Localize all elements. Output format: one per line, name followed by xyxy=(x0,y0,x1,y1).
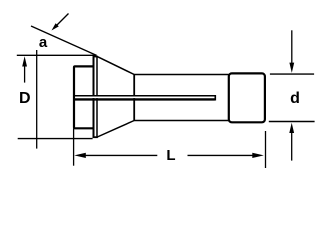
dimension d up arrowhead xyxy=(289,123,294,133)
collet head (left body rectangle) xyxy=(74,66,94,128)
svg-text:D: D xyxy=(19,90,31,107)
dimension d top extension line xyxy=(270,73,314,75)
slot bottom line xyxy=(75,98,215,100)
flange bottom cap xyxy=(93,136,98,138)
dimension L line left segment xyxy=(80,154,157,156)
slot white slit (cuts through flange and junction lines) xyxy=(75,96,215,98)
dimension L left arrowhead xyxy=(74,153,86,158)
flange top cap xyxy=(93,56,98,58)
slot top line xyxy=(75,95,215,97)
taper top line xyxy=(97,57,134,75)
nose rectangle (right end) xyxy=(229,73,265,122)
taper bottom line xyxy=(97,121,134,138)
cone-cylinder junction vertical xyxy=(133,74,135,121)
dimension D up arrow stem xyxy=(24,64,26,83)
dimension D bottom extension line xyxy=(18,138,93,140)
svg-text:a: a xyxy=(39,34,48,51)
dimension L left extension line xyxy=(73,129,75,166)
dimension D top extension line xyxy=(17,54,97,56)
flange right vertical xyxy=(96,56,98,137)
dimension L right extension line xyxy=(265,131,267,168)
slot right end cap xyxy=(214,95,216,101)
svg-text:d: d xyxy=(290,90,300,107)
shaft bottom line xyxy=(134,120,229,122)
flange left vertical xyxy=(93,56,95,137)
svg-text:L: L xyxy=(166,147,175,164)
shaft top line xyxy=(134,74,229,76)
dimension d up arrow stem xyxy=(291,131,293,161)
dimension D vertical line xyxy=(36,50,38,149)
dimension d bottom extension line xyxy=(269,121,315,123)
angle a leader line xyxy=(54,14,69,29)
dimension d down arrow stem xyxy=(291,30,293,65)
dimension L line right segment xyxy=(188,154,259,156)
angle a slanted extension line xyxy=(31,26,97,55)
angle a leader arrowhead xyxy=(52,23,59,30)
dimension D up arrowhead xyxy=(22,56,27,66)
dimension L right arrowhead xyxy=(252,153,263,158)
dimension d down arrowhead xyxy=(289,63,294,73)
